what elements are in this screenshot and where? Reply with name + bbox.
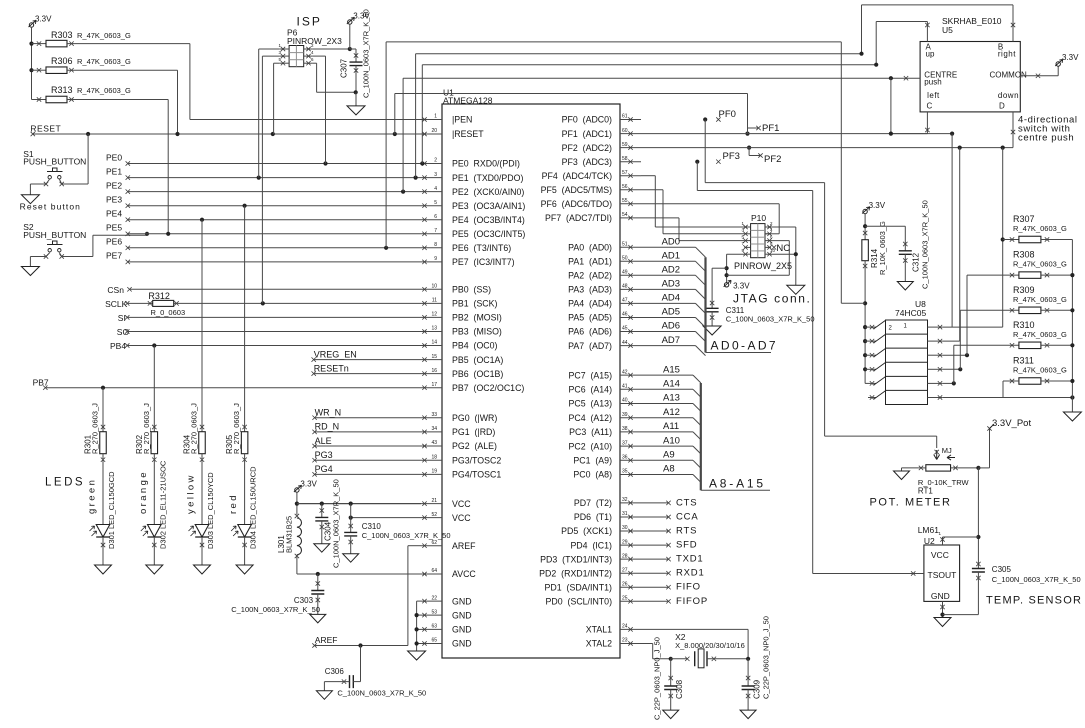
svg-text:PA0 (AD0): PA0 (AD0)	[568, 242, 612, 252]
wire R313 to PE5	[67, 99, 168, 101]
svg-text:55: 55	[622, 198, 628, 204]
svg-text:PINROW_2X5: PINROW_2X5	[734, 261, 792, 271]
svg-text:15: 15	[431, 354, 437, 360]
svg-text:TXD1: TXD1	[676, 554, 703, 565]
svg-text:yellow: yellow	[186, 473, 197, 514]
svg-text:49: 49	[622, 270, 628, 276]
svg-text:3: 3	[434, 172, 437, 178]
svg-text:PG1 (|RD): PG1 (|RD)	[452, 427, 495, 437]
svg-text:AD5: AD5	[662, 307, 680, 318]
wire PF1 + label callout	[745, 132, 749, 136]
svg-text:ALE: ALE	[315, 436, 332, 446]
wire R302 to LED	[153, 454, 155, 525]
svg-text:A12: A12	[663, 407, 680, 418]
svg-text:PE6: PE6	[106, 237, 122, 247]
resistor R301	[102, 388, 104, 432]
capacitor C304	[321, 504, 323, 518]
resistor R303	[29, 42, 33, 46]
svg-text:18: 18	[431, 454, 437, 460]
ground at D302	[146, 565, 163, 574]
svg-text:C312: C312	[912, 252, 921, 272]
wire ISP pin2 to 3.3V	[312, 48, 349, 50]
svg-text:D301 LED_CL150GCD: D301 LED_CL150GCD	[107, 471, 116, 549]
svg-text:PC2 (A10): PC2 (A10)	[568, 441, 612, 451]
wire ISP pin5 to RESET	[274, 62, 280, 64]
capacitor C310	[350, 504, 352, 533]
svg-text:PA5 (AD5): PA5 (AD5)	[568, 313, 612, 323]
svg-text:19: 19	[431, 469, 437, 475]
wire RESET	[33, 133, 421, 135]
wire U2 GND pin to ground	[942, 601, 944, 617]
wire R314 rail to U8 outputs	[864, 261, 866, 384]
svg-text:R307: R307	[1013, 214, 1035, 224]
svg-text:C_100N_0603_X7R_K_50: C_100N_0603_X7R_K_50	[332, 479, 341, 568]
svg-text:PB4 (OC0): PB4 (OC0)	[452, 341, 498, 351]
svg-text:22: 22	[431, 595, 437, 601]
wire JTAG pin9 to 3.3V rail	[727, 253, 745, 255]
svg-text:25: 25	[622, 596, 628, 602]
svg-text:PD7 (T2): PD7 (T2)	[574, 498, 612, 508]
wire ISP pin3 to PB1/SCLK	[262, 55, 279, 57]
svg-text:centre push: centre push	[1018, 133, 1074, 144]
ground at C303	[310, 614, 326, 623]
svg-text:PG2 (ALE): PG2 (ALE)	[452, 441, 497, 451]
svg-text:R309: R309	[1013, 285, 1035, 295]
svg-text:R_270_0603_J: R_270_0603_J	[142, 403, 151, 454]
ground at U1 GND pins	[408, 651, 426, 660]
svg-text:CTS: CTS	[676, 497, 697, 508]
svg-text:PD5 (XCK1): PD5 (XCK1)	[561, 526, 612, 536]
svg-text:56: 56	[622, 184, 628, 190]
svg-text:60: 60	[622, 128, 628, 134]
svg-text:GND: GND	[452, 610, 472, 620]
svg-text:PE4 (OC3B/INT4): PE4 (OC3B/INT4)	[452, 215, 525, 225]
power flag 3.3V at ISP	[348, 20, 352, 24]
svg-text:RD_N: RD_N	[315, 422, 340, 432]
svg-text:40: 40	[622, 398, 628, 404]
svg-text:PF0 (ADC0): PF0 (ADC0)	[562, 115, 612, 125]
svg-text:4: 4	[434, 186, 437, 192]
wire PF6 to JTAG pin4 (TDO)	[641, 203, 779, 205]
svg-text:PC5 (A13): PC5 (A13)	[568, 399, 612, 409]
wire PE0 to switch A (top bus 3)	[421, 65, 423, 164]
wire C311 branch	[712, 267, 727, 269]
svg-text:45: 45	[622, 326, 628, 332]
svg-text:PE4: PE4	[106, 209, 122, 219]
power flag 3.3V top-left	[29, 23, 33, 27]
svg-text:47: 47	[622, 298, 628, 304]
ground at C307	[347, 106, 365, 115]
wire U5 pin C (left)	[926, 112, 928, 134]
capacitor C309	[747, 659, 749, 686]
wires PD7-PD0 with net labels CTS..FIFOP	[641, 502, 669, 504]
svg-text:43: 43	[431, 440, 437, 446]
svg-text:53: 53	[431, 609, 437, 615]
wire U2 VCC pin	[942, 537, 944, 545]
svg-text:ISP: ISP	[297, 15, 322, 29]
svg-text:C308: C308	[675, 679, 684, 699]
wires PC7-PC0 to A bus with labels	[641, 374, 693, 376]
svg-text:PUSH_BUTTON: PUSH_BUTTON	[23, 157, 86, 167]
svg-text:34: 34	[431, 426, 437, 432]
svg-text:PC3 (A11): PC3 (A11)	[569, 427, 612, 437]
svg-text:28: 28	[622, 553, 628, 559]
svg-text:green: green	[87, 478, 98, 514]
svg-text:R_0_0603: R_0_0603	[151, 308, 186, 317]
wires PA0-PA7 to AD bus with labels	[641, 246, 696, 248]
ground S1	[21, 195, 39, 204]
svg-text:SI: SI	[118, 313, 126, 323]
wire U5 COMMON to 3.3V	[1020, 75, 1058, 77]
IC U1 ATMEGA128 body	[442, 104, 620, 658]
resistor R304	[201, 220, 203, 432]
svg-text:PF1 (ADC1): PF1 (ADC1)	[562, 129, 612, 139]
wire R303 to PEN	[67, 43, 190, 45]
svg-text:11: 11	[432, 298, 437, 304]
svg-text:PE1 (TXD0/PDO): PE1 (TXD0/PDO)	[452, 173, 523, 183]
svg-text:AREF: AREF	[315, 635, 338, 645]
svg-text:1: 1	[434, 114, 437, 120]
svg-text:MJ: MJ	[942, 446, 952, 455]
ground at U2	[934, 618, 951, 627]
svg-text:PC4 (A12): PC4 (A12)	[568, 413, 612, 423]
wire RESET to PF1 line (top bus 5)	[394, 94, 396, 135]
svg-text:46: 46	[622, 312, 628, 318]
svg-text:|RESET: |RESET	[452, 129, 484, 139]
svg-text:PG4: PG4	[315, 464, 333, 474]
wire U8 row2	[942, 340, 960, 342]
wire U8 row4 to R309	[942, 368, 960, 370]
svg-text:16: 16	[431, 368, 437, 374]
svg-text:13: 13	[431, 326, 437, 332]
svg-text:PB7 (OC2/OC1C): PB7 (OC2/OC1C)	[452, 383, 524, 393]
wire PE6 bus line joins rail	[840, 42, 842, 303]
svg-text:push: push	[924, 78, 941, 87]
svg-text:PF2 (ADC2): PF2 (ADC2)	[562, 143, 612, 153]
svg-text:PE3 (OC3A/AIN1): PE3 (OC3A/AIN1)	[452, 201, 525, 211]
svg-text:C303: C303	[294, 596, 314, 605]
svg-text:AD3: AD3	[662, 279, 680, 290]
svg-text:PB4: PB4	[110, 341, 126, 351]
svg-text:C_100N_0603_X7R_K_50: C_100N_0603_X7R_K_50	[726, 315, 815, 324]
svg-text:PD0 (SCL/INT0): PD0 (SCL/INT0)	[546, 597, 613, 607]
svg-text:PG3: PG3	[315, 450, 333, 460]
svg-text:up: up	[926, 50, 935, 59]
svg-text:C_100N_0603_X7R_K_50: C_100N_0603_X7R_K_50	[231, 605, 320, 614]
svg-text:62: 62	[431, 540, 437, 546]
wire U8 row1 to PF1 line and R307	[942, 326, 1003, 328]
svg-text:RTS: RTS	[676, 526, 697, 537]
svg-text:PE5: PE5	[106, 223, 122, 233]
svg-text:58: 58	[622, 156, 628, 162]
svg-text:3.3V_Pot: 3.3V_Pot	[992, 418, 1031, 429]
power flag 3.3V at R314	[863, 209, 867, 213]
svg-text:R313: R313	[51, 85, 73, 95]
svg-text:PF0: PF0	[719, 109, 736, 120]
svg-text:PD3 (TXD1/INT3): PD3 (TXD1/INT3)	[540, 554, 612, 564]
resistor R305	[244, 206, 246, 432]
power flag 3.3V at VCC	[295, 488, 299, 492]
svg-text:3.3V: 3.3V	[35, 15, 52, 24]
svg-text:GND: GND	[452, 596, 472, 606]
svg-text:C_100N_0603_X7R_K_50: C_100N_0603_X7R_K_50	[362, 9, 371, 98]
ground at C308	[663, 710, 679, 719]
svg-text:PINROW_2X3: PINROW_2X3	[287, 36, 342, 46]
svg-text:GND: GND	[452, 625, 472, 635]
resistor R313	[32, 99, 47, 101]
svg-text:P10: P10	[751, 213, 766, 223]
ground at C312	[897, 282, 913, 291]
ferrite bead L301	[295, 514, 299, 518]
svg-text:PB1 (SCK): PB1 (SCK)	[452, 299, 498, 309]
svg-text:C_100N_0603_X7R_K_50: C_100N_0603_X7R_K_50	[337, 689, 426, 698]
svg-text:30: 30	[622, 525, 628, 531]
wire S1 right to RESET	[62, 183, 88, 185]
wire 3.3V rail top-left	[31, 27, 33, 100]
svg-text:Reset button: Reset button	[20, 202, 81, 212]
svg-text:C_100N_0603_X7R_K_50: C_100N_0603_X7R_K_50	[992, 575, 1081, 584]
svg-text:26: 26	[622, 581, 628, 587]
svg-text:3.3V: 3.3V	[1062, 53, 1079, 62]
wire S2 right to PE5	[62, 256, 93, 258]
svg-text:PF4 (ADC4/TCK): PF4 (ADC4/TCK)	[542, 171, 612, 181]
junction dots on PE wires	[323, 161, 327, 165]
svg-text:31: 31	[622, 511, 628, 517]
wire PF3 branch to temp sensor TSOUT	[696, 162, 698, 191]
svg-text:5: 5	[434, 200, 437, 206]
svg-text:33: 33	[431, 412, 437, 418]
svg-text:C: C	[927, 102, 933, 111]
wire PF2 + label callout	[747, 146, 751, 150]
svg-text:21: 21	[431, 498, 437, 504]
svg-text:R310: R310	[1013, 320, 1035, 330]
svg-text:R_270_0603_J: R_270_0603_J	[91, 403, 100, 454]
svg-text:BLM31B25: BLM31B25	[285, 516, 294, 553]
svg-text:48: 48	[622, 284, 628, 290]
wire R305 to LED	[244, 454, 246, 525]
svg-text:A9: A9	[663, 450, 675, 461]
svg-text:64: 64	[431, 568, 437, 574]
svg-text:GND: GND	[931, 591, 950, 601]
svg-text:R_270_0603_J: R_270_0603_J	[232, 403, 241, 454]
svg-text:3.3V: 3.3V	[300, 480, 317, 489]
svg-text:PC1 (A9): PC1 (A9)	[573, 456, 612, 466]
svg-text:63: 63	[431, 624, 437, 630]
svg-text:41: 41	[622, 384, 628, 390]
svg-text:down: down	[998, 91, 1019, 100]
ground at D304	[236, 565, 253, 574]
wire U2 TSOUT pin	[913, 573, 924, 575]
svg-text:VCC: VCC	[452, 513, 471, 523]
svg-text:C309: C309	[753, 679, 762, 699]
svg-text:right: right	[998, 50, 1016, 59]
svg-text:SFD: SFD	[676, 540, 697, 551]
svg-text:50: 50	[622, 256, 628, 262]
svg-text:X_8.000/20/30/10/16: X_8.000/20/30/10/16	[675, 641, 745, 650]
svg-text:XTAL1: XTAL1	[586, 625, 612, 635]
svg-text:PC7 (A15): PC7 (A15)	[568, 370, 612, 380]
svg-text:CSn: CSn	[107, 285, 124, 295]
wire U5 pin D (down)	[1012, 112, 1014, 148]
svg-text:TEMP. SENSOR: TEMP. SENSOR	[986, 595, 1082, 607]
svg-text:VREG_EN: VREG_EN	[314, 350, 357, 360]
svg-text:PD2 (RXD1/INT2): PD2 (RXD1/INT2)	[539, 568, 612, 578]
wire 3.3V to VCC pins	[296, 492, 298, 515]
ground at C309	[740, 710, 756, 719]
svg-text:PF3: PF3	[723, 151, 740, 162]
svg-text:C_22P_0603_NP0_J_50: C_22P_0603_NP0_J_50	[761, 616, 770, 699]
svg-text:PD1 (SDA/INT1): PD1 (SDA/INT1)	[545, 582, 613, 592]
svg-text:PE7 (IC3/INT7): PE7 (IC3/INT7)	[452, 257, 515, 267]
svg-text:AD6: AD6	[662, 321, 680, 332]
capacitor C305	[976, 562, 980, 566]
svg-text:D303 LED_CL150YCD: D303 LED_CL150YCD	[206, 472, 215, 549]
capacitor C312	[865, 225, 905, 227]
svg-text:CCA: CCA	[676, 512, 698, 523]
wire ISP pin6 to C307 bottom node	[312, 62, 316, 64]
svg-text:R306: R306	[51, 56, 73, 66]
svg-text:29: 29	[622, 539, 628, 545]
svg-text:9: 9	[434, 256, 437, 262]
ground rail right side	[1071, 240, 1073, 413]
svg-text:PE0 RXD0/(PDI): PE0 RXD0/(PDI)	[452, 159, 520, 169]
svg-text:PG4/TOSC1: PG4/TOSC1	[452, 470, 501, 480]
svg-text:R_47K_0603_G: R_47K_0603_G	[1013, 330, 1067, 339]
wire S2 left to ground	[30, 256, 46, 258]
AD bus vertical	[704, 257, 706, 352]
svg-text:PA2 (AD2): PA2 (AD2)	[568, 271, 612, 281]
no-connect JTAG pin6	[772, 245, 776, 249]
power flag 3.3V_Pot	[978, 467, 989, 469]
svg-text:PE7: PE7	[106, 251, 122, 261]
svg-text:A14: A14	[663, 379, 680, 390]
svg-text:RXD1: RXD1	[676, 568, 705, 579]
svg-text:POT. METER: POT. METER	[870, 497, 952, 509]
svg-text:PB3 (MISO): PB3 (MISO)	[452, 327, 502, 337]
svg-text:PUSH_BUTTON: PUSH_BUTTON	[23, 230, 86, 240]
svg-text:AD2: AD2	[662, 265, 680, 276]
svg-text:PE6 (T3/INT6): PE6 (T3/INT6)	[452, 243, 511, 253]
svg-text:R312: R312	[148, 291, 170, 301]
svg-text:PB6 (OC1B): PB6 (OC1B)	[452, 369, 503, 379]
svg-text:PB0 (SS): PB0 (SS)	[452, 285, 491, 295]
svg-text:PD6 (T1): PD6 (T1)	[574, 512, 612, 522]
svg-text:RESETn: RESETn	[314, 364, 349, 374]
svg-text:57: 57	[622, 170, 628, 176]
capacitor C311	[710, 301, 714, 305]
ground at C304	[314, 544, 330, 553]
svg-text:PF2: PF2	[764, 154, 781, 165]
svg-text:AD1: AD1	[662, 251, 680, 262]
svg-text:38: 38	[622, 426, 628, 432]
svg-text:C306: C306	[325, 667, 345, 676]
svg-text:PE1: PE1	[106, 166, 122, 176]
wire ISP pin1 to PE1	[259, 48, 280, 50]
wire JTAG pin8 to 3.3V rail	[771, 240, 789, 242]
resistor R306	[29, 68, 33, 72]
svg-text:8: 8	[434, 242, 437, 248]
svg-text:R_10K_0603_G: R_10K_0603_G	[878, 221, 887, 275]
svg-text:PF5 (ADC5/TMS): PF5 (ADC5/TMS)	[541, 185, 612, 195]
ground at D301	[95, 565, 112, 574]
wire AREF	[408, 545, 421, 547]
svg-text:FIFOP: FIFOP	[676, 596, 708, 607]
svg-text:C_100N_0603_X7R_K_50: C_100N_0603_X7R_K_50	[362, 531, 451, 540]
svg-text:PE5 (OC3C/INT5): PE5 (OC3C/INT5)	[452, 229, 525, 239]
svg-text:C_22P_0603_NP0_J_50: C_22P_0603_NP0_J_50	[653, 637, 662, 720]
wire LED to ground	[102, 537, 104, 565]
ground at C306	[316, 691, 332, 700]
svg-text:24: 24	[622, 624, 628, 630]
svg-text:PA7 (AD7): PA7 (AD7)	[568, 341, 612, 351]
svg-text:ATMEGA128: ATMEGA128	[443, 96, 493, 106]
wire pot node down to temp sensor	[977, 468, 979, 569]
svg-text:R_47K_0603_G: R_47K_0603_G	[77, 86, 131, 95]
svg-text:10: 10	[431, 284, 437, 290]
wire PE6 to switch cluster (top bus 1)	[385, 42, 387, 248]
svg-text:54: 54	[622, 212, 628, 218]
resistor R312 in SCLK line	[127, 302, 152, 304]
wire XTAL1	[641, 628, 748, 630]
capacitor C307	[349, 24, 351, 49]
svg-text:AD7: AD7	[662, 335, 680, 346]
wire R301 to LED	[102, 454, 104, 525]
svg-text:U5: U5	[942, 25, 953, 35]
wire LED to ground	[153, 537, 155, 565]
svg-text:PF1: PF1	[762, 123, 779, 134]
svg-text:PC0 (A8): PC0 (A8)	[573, 470, 612, 480]
svg-text:61: 61	[622, 114, 628, 120]
svg-text:A13: A13	[663, 393, 680, 404]
A bus vertical	[700, 383, 702, 490]
svg-text:JTAG conn.: JTAG conn.	[733, 292, 811, 306]
wire L301 to AVCC	[296, 555, 298, 574]
svg-text:23: 23	[622, 638, 628, 644]
wire PF3 + label	[695, 160, 699, 164]
svg-text:AVCC: AVCC	[452, 569, 476, 579]
svg-text:AD0: AD0	[662, 236, 680, 247]
svg-text:65: 65	[431, 638, 437, 644]
svg-text:6: 6	[434, 214, 437, 220]
svg-text:PE2 (XCK0/AIN0): PE2 (XCK0/AIN0)	[452, 187, 524, 197]
svg-text:R_270_0603_J: R_270_0603_J	[190, 403, 199, 454]
svg-text:AD0-AD7: AD0-AD7	[711, 339, 778, 353]
svg-text:14: 14	[431, 340, 437, 346]
wire PF7 to JTAG pin5 (TDI)	[641, 217, 679, 219]
wire R311 left to row6	[1003, 380, 1019, 382]
svg-text:R_47K_0603_G: R_47K_0603_G	[77, 31, 131, 40]
svg-text:R_47K_0603_G: R_47K_0603_G	[1013, 224, 1067, 233]
resistor R302	[153, 346, 155, 432]
wire LED to ground	[201, 537, 203, 565]
svg-text:PG0 (|WR): PG0 (|WR)	[452, 413, 497, 423]
wire R312 to PB1	[174, 302, 421, 304]
svg-text:orange: orange	[138, 470, 149, 514]
svg-text:R_47K_0603_G: R_47K_0603_G	[77, 57, 131, 66]
wire GND pins to ground	[417, 600, 421, 602]
crystal X2	[671, 658, 688, 660]
wire PF0 branch to pot meter	[704, 120, 706, 183]
wire PF5 to JTAG pin3 (TMS)	[641, 189, 663, 191]
svg-text:51: 51	[622, 241, 628, 247]
svg-text:74HC05: 74HC05	[895, 308, 926, 318]
svg-text:39: 39	[622, 412, 628, 418]
svg-text:7: 7	[434, 228, 437, 234]
wire PF4 to JTAG pin1 (TCK)	[641, 175, 655, 177]
ground at pot	[894, 471, 910, 480]
ground at C310	[343, 554, 359, 563]
svg-text:20: 20	[431, 128, 437, 134]
